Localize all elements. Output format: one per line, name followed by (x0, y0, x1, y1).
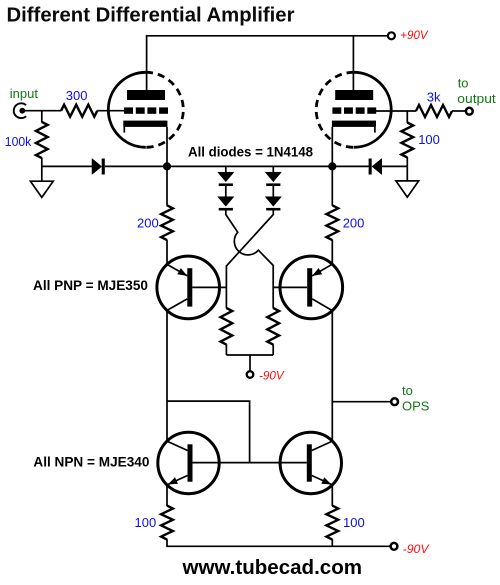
transistor Q2 PNP MJE350 right (280, 256, 343, 319)
resistor 3k (416, 105, 452, 117)
diode D6 1N4148 (265, 197, 281, 207)
input jack connector (14, 103, 26, 118)
transistor Q1 PNP MJE350 left (157, 256, 220, 319)
V1 grid (124, 107, 133, 113)
resistor 200 right (331, 166, 333, 205)
diode D3 1N4148 (218, 172, 234, 182)
svg-text:100: 100 (135, 515, 157, 530)
svg-text:100: 100 (418, 132, 440, 147)
V2 grid (332, 107, 341, 113)
node right cathode junction (328, 162, 336, 170)
node left cathode junction (163, 162, 171, 170)
wire R300 to grid (97, 110, 124, 112)
ground left (30, 181, 53, 197)
resistor 100 bottom right (326, 506, 338, 540)
wire V2 grid to node (376, 110, 417, 112)
wire tail join (226, 354, 273, 356)
svg-text:-90V: -90V (403, 542, 431, 556)
wire R100k to ground rail (41, 158, 43, 167)
wire input to R300 (24, 110, 61, 112)
V2 cathode (332, 121, 376, 127)
svg-text:All NPN = MJE340: All NPN = MJE340 (33, 454, 149, 470)
wire left emitter down (166, 484, 168, 507)
terminal -90V middle (247, 371, 254, 378)
wire chain stub bottom (272, 211, 274, 216)
svg-text:to: to (402, 383, 413, 398)
wire right column PNP to NPN (331, 310, 333, 442)
svg-text:3k: 3k (427, 90, 441, 105)
wire node down to R100 (406, 111, 408, 123)
terminal -90V bottom (391, 543, 398, 550)
diode D4 1N4148 (218, 197, 234, 207)
wire mirror jog (167, 401, 250, 463)
svg-text:All diodes = 1N4148: All diodes = 1N4148 (188, 144, 313, 160)
wire D1 to left cathode node (105, 165, 167, 167)
wire to right ground (406, 166, 408, 181)
svg-text:to: to (458, 76, 469, 91)
wire chain mid stub (225, 186, 227, 197)
svg-text:100k: 100k (5, 134, 32, 149)
terminal OPS (391, 398, 398, 405)
wire to OPS (332, 401, 391, 403)
diode D1 1N4148 (92, 159, 102, 175)
triode V2 right envelope (354, 72, 392, 147)
svg-text:output: output (457, 91, 496, 106)
wire chain stub bottom (225, 211, 227, 216)
svg-text:-90V: -90V (259, 369, 285, 383)
svg-text:Different Differential Amplifi: Different Differential Amplifier (7, 4, 295, 26)
resistor 100k (36, 122, 48, 158)
V2 plate (335, 90, 373, 100)
wire 3k to output terminal (452, 110, 466, 112)
resistor 200 left (166, 166, 168, 205)
terminal output (466, 108, 473, 115)
svg-text:200: 200 (343, 215, 365, 230)
diode D5 1N4148 (265, 172, 281, 182)
wire left column PNP to NPN (166, 310, 168, 442)
wire chain stub top x=273.3 (272, 166, 274, 172)
wire to left ground (41, 166, 43, 181)
wire right node to D2 (332, 165, 369, 167)
wire left plate lead (146, 35, 148, 91)
transistor Q3 NPN MJE340 left (158, 432, 219, 493)
svg-text:200: 200 (137, 215, 159, 230)
diode D2 1N4148 (369, 159, 372, 175)
svg-text:+90V: +90V (400, 28, 429, 42)
wire bottom -90V rail (166, 545, 391, 547)
wire D2 to right ground node (382, 165, 408, 167)
resistor tail left (221, 308, 233, 345)
wire cathode rail middle (167, 165, 332, 167)
wire NPN base rail (193, 462, 307, 464)
wire V1 cathode lead (166, 127, 168, 166)
wire ground rail left segment (42, 165, 92, 167)
wire top +90V rail (147, 35, 388, 37)
svg-text:300: 300 (66, 88, 88, 103)
resistor 100 (plate side) (401, 123, 413, 158)
V1 cathode (123, 121, 167, 127)
wire right emitter down (331, 484, 333, 507)
ground right (396, 181, 419, 197)
resistor 300 (61, 105, 97, 117)
transistor Q4 NPN MJE340 right (280, 432, 341, 493)
V1 plate (127, 90, 165, 100)
svg-text:OPS: OPS (402, 398, 430, 413)
svg-text:www.tubecad.com: www.tubecad.com (181, 557, 362, 579)
resistor tail right (267, 308, 279, 345)
resistor 100 bottom left (161, 506, 173, 540)
wire right plate lead (352, 36, 354, 91)
wire chain stub top x=225.8 (225, 166, 227, 172)
wire R100 to ground rail (406, 157, 408, 166)
svg-text:input: input (10, 86, 39, 101)
wire cross line A with hop (left chain to right column) (226, 215, 273, 309)
svg-text:All PNP = MJE350: All PNP = MJE350 (33, 277, 148, 293)
wire cross line B (right chain to left column) (226, 215, 273, 309)
svg-text:100: 100 (343, 515, 365, 530)
wire V2 cathode lead (331, 127, 333, 166)
triode V1 left envelope (108, 72, 145, 147)
wire input node down (41, 111, 43, 123)
wire chain mid stub (272, 186, 274, 197)
terminal +90V (388, 32, 395, 39)
